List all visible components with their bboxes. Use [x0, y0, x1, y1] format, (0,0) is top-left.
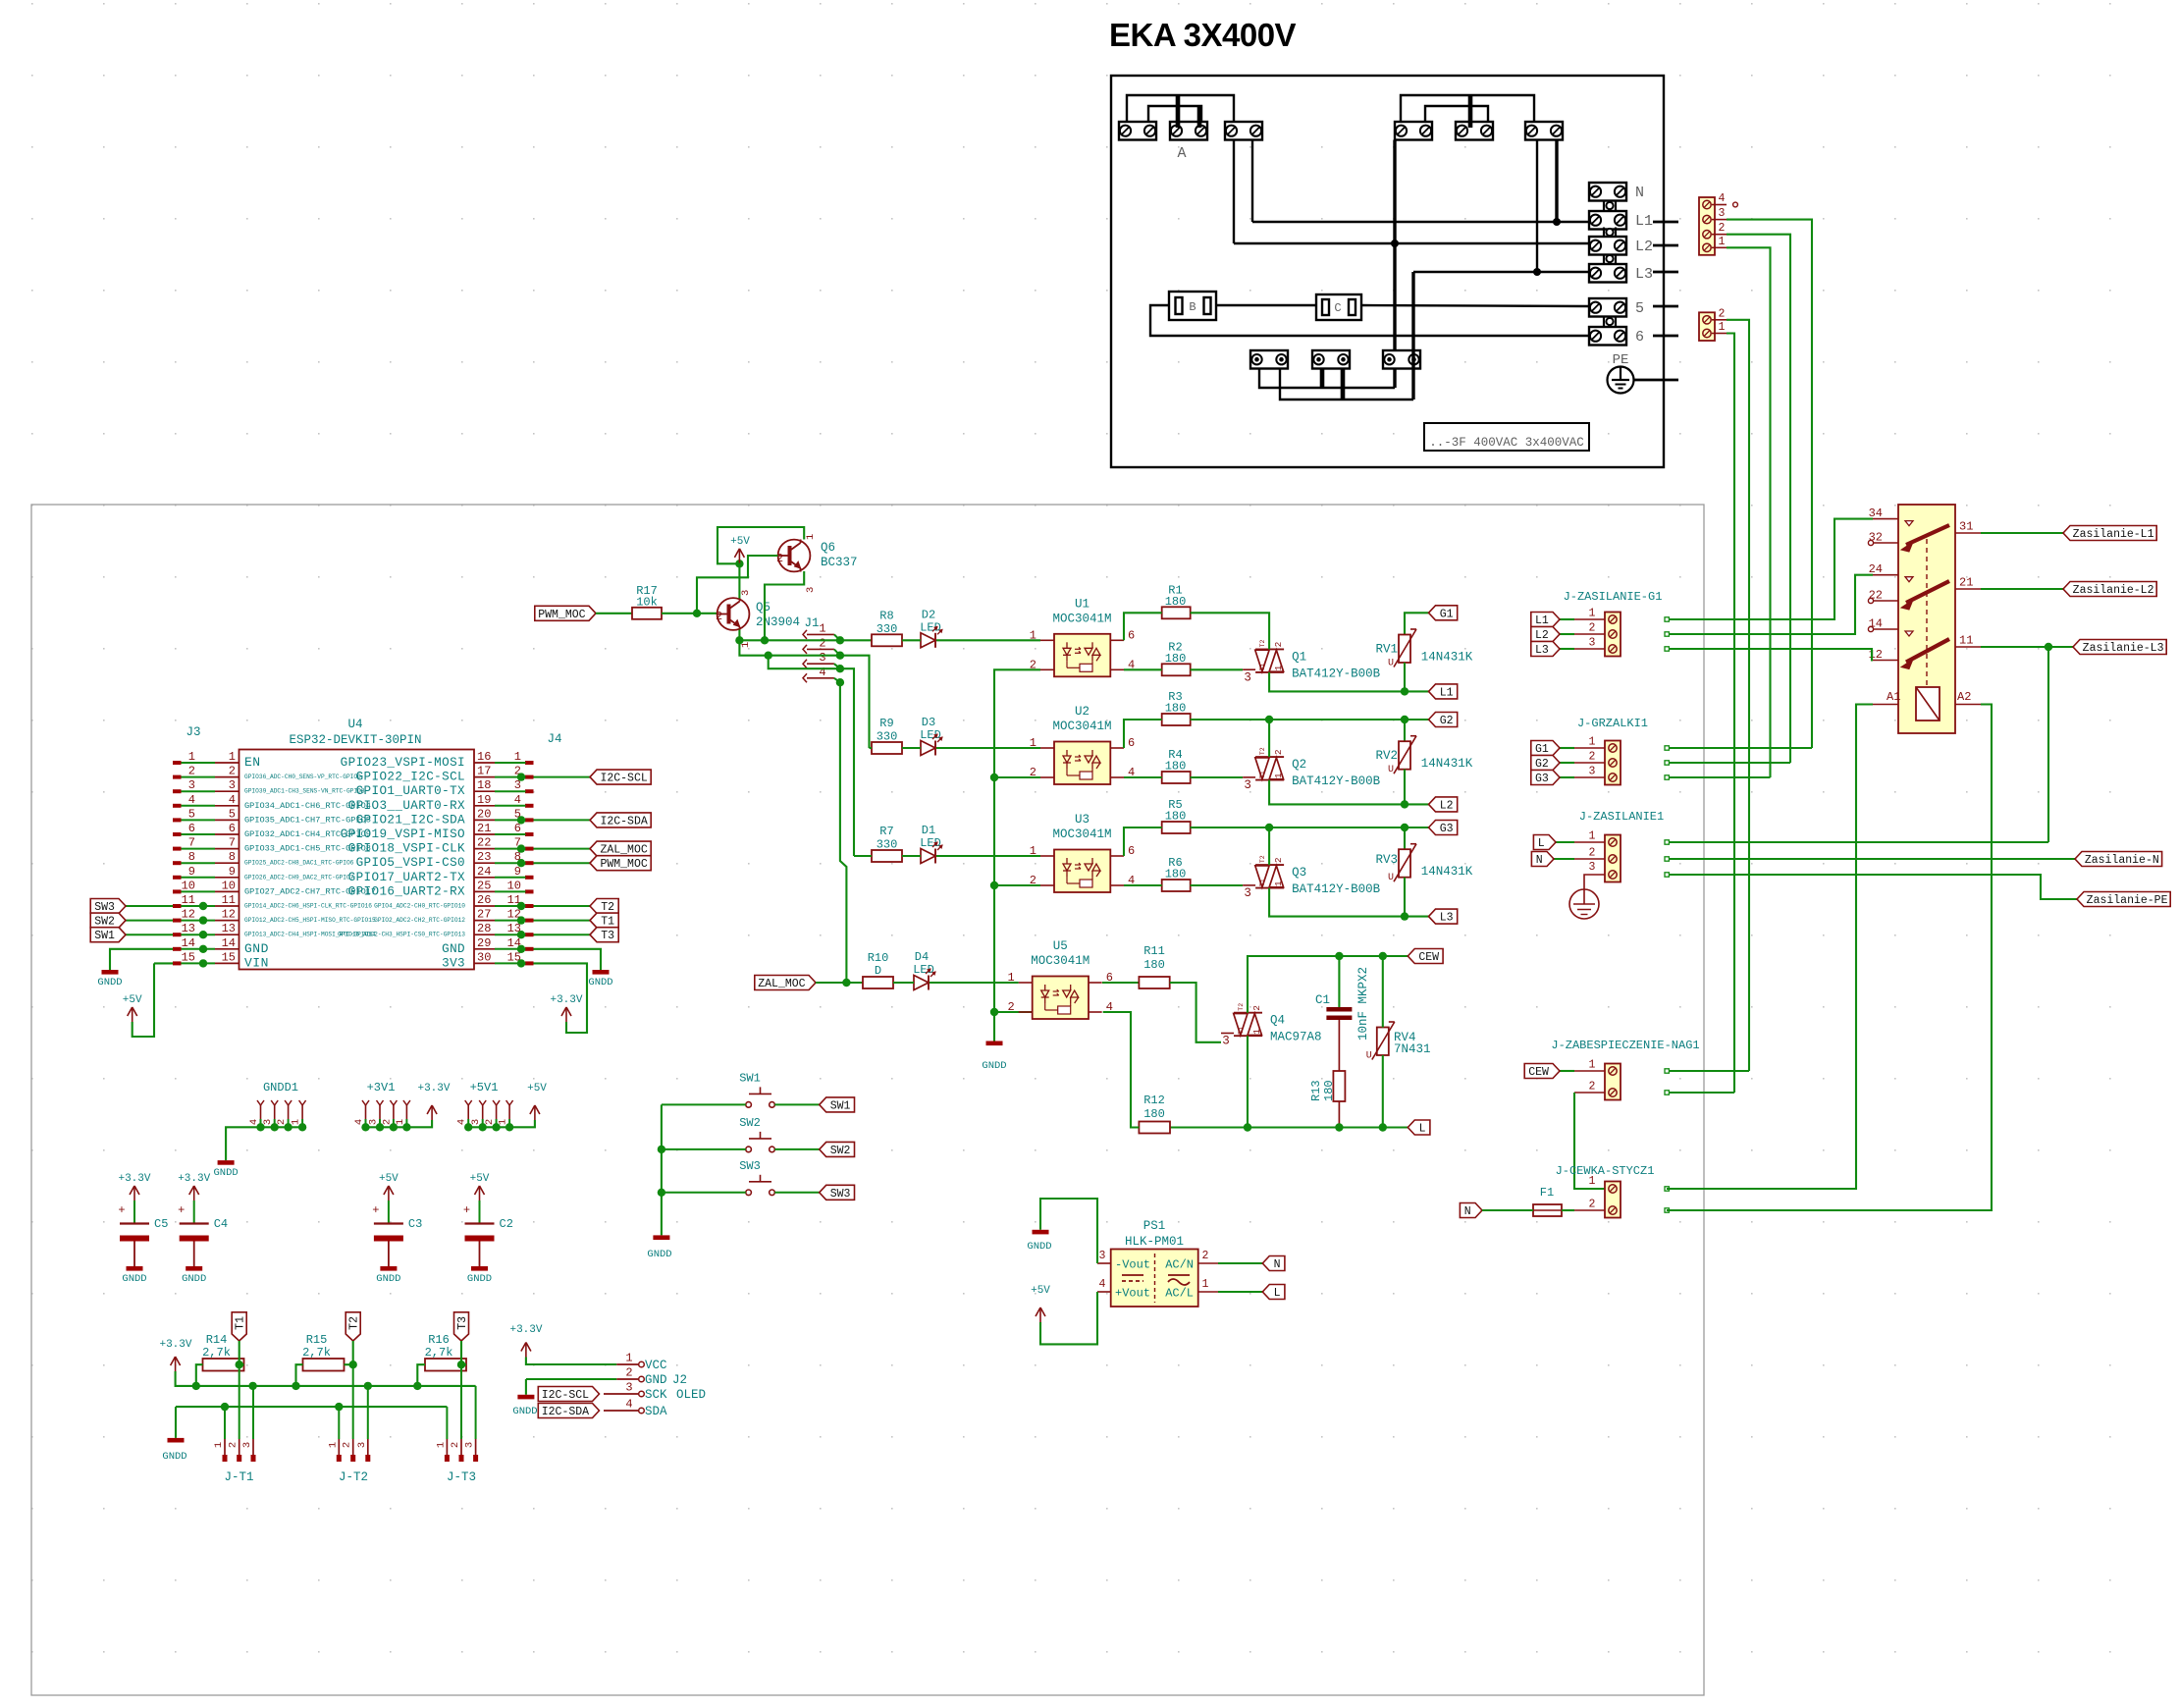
svg-text:3: 3 [1244, 778, 1251, 792]
svg-text:MOC3041M: MOC3041M [1052, 612, 1111, 625]
J3/U4 pin row 7 left [173, 847, 182, 851]
svg-text:1: 1 [1007, 971, 1014, 985]
svg-text:2: 2 [1589, 847, 1596, 860]
svg-text:G3: G3 [1535, 773, 1549, 785]
svg-text:L3: L3 [1440, 912, 1454, 925]
J4/U4 pin row 17 right [525, 775, 534, 779]
svg-text:4: 4 [819, 666, 825, 679]
label SW1 wire [122, 934, 173, 935]
svg-text:17: 17 [477, 765, 491, 778]
svg-text:GNDD: GNDD [512, 1406, 537, 1417]
svg-text:2: 2 [625, 1366, 632, 1380]
junction [390, 1123, 398, 1131]
label T2 [345, 1312, 360, 1341]
wire PWM to R17 [596, 613, 632, 614]
connector FEED2 [1699, 312, 1715, 341]
svg-text:30: 30 [477, 950, 491, 964]
wire G1 to RV1 [1405, 613, 1429, 634]
svg-text:Q5: Q5 [756, 601, 771, 614]
svg-text:GNDD: GNDD [376, 1273, 400, 1285]
terminal chain links [1603, 201, 1605, 211]
junction [479, 1123, 487, 1131]
junction [1335, 952, 1343, 960]
label PWM_MOC [590, 856, 651, 871]
svg-text:26: 26 [477, 893, 491, 907]
J4/U4 pin row 21 right [525, 832, 534, 836]
svg-text:ZAL_MOC: ZAL_MOC [600, 844, 647, 857]
svg-text:6: 6 [229, 822, 236, 835]
svg-text:6: 6 [1128, 628, 1135, 642]
label SW2 [90, 913, 126, 928]
svg-text:Q1: Q1 [1292, 650, 1306, 664]
svg-text:G1: G1 [1535, 743, 1549, 756]
GNDD chain for opto pin2 [994, 669, 1040, 1041]
power +3.3V [193, 1186, 195, 1201]
connector J-CEWKA-STYCZ1 [1605, 1182, 1621, 1218]
J3/U4 pin row 5 left [173, 818, 182, 822]
junction [1335, 1123, 1343, 1131]
junction [842, 979, 850, 987]
svg-text:3: 3 [1589, 766, 1596, 778]
junction [464, 1123, 472, 1131]
junction [836, 665, 844, 672]
junction [765, 652, 772, 660]
svg-text:+: + [463, 1203, 470, 1217]
junction [658, 1189, 665, 1197]
junction [1265, 824, 1273, 831]
svg-text:10: 10 [222, 879, 236, 892]
junction [364, 1382, 372, 1390]
svg-text:ESP32-DEVKIT-30PIN: ESP32-DEVKIT-30PIN [289, 733, 421, 747]
junction [199, 916, 207, 924]
svg-text:2: 2 [716, 611, 722, 623]
J3/U4 pin row 8 left [173, 861, 182, 865]
earth symbol [1569, 889, 1599, 919]
triac Q4 MAC97A8 [1234, 1012, 1262, 1014]
junction [492, 1123, 500, 1131]
wire triac top [1191, 719, 1429, 721]
svg-text:GNDD1: GNDD1 [263, 1081, 298, 1094]
label L1 [1429, 684, 1458, 699]
svg-text:T2: T2 [348, 1316, 361, 1330]
junction [271, 1123, 279, 1131]
svg-text:GPIO36_ADC-CH0_SENS-VP_RTC-GPI: GPIO36_ADC-CH0_SENS-VP_RTC-GPIO0 [244, 774, 361, 780]
J4/U4 pin row 23 right [525, 861, 534, 865]
wire +3.3V to J2.1 [526, 1358, 616, 1365]
J4/U4 pin row 20 right [525, 818, 534, 822]
svg-text:+3.3V: +3.3V [550, 994, 582, 1006]
wire G1.3 to 12 [1669, 649, 1873, 661]
junction [361, 1123, 369, 1131]
terminal block E3 [1383, 350, 1420, 369]
svg-text:+3V1: +3V1 [367, 1081, 396, 1094]
label T3 [590, 928, 618, 942]
J1 pin 3 [803, 660, 807, 668]
svg-text:3: 3 [464, 1442, 476, 1448]
wire R13 to L row [1338, 1101, 1340, 1128]
svg-text:C3: C3 [408, 1217, 422, 1231]
svg-text:CEW: CEW [1528, 1066, 1549, 1079]
svg-text:1: 1 [435, 1442, 447, 1448]
run B-C [1216, 304, 1316, 306]
svg-text:12: 12 [222, 908, 236, 922]
svg-text:GPIO23_VSPI-MOSI: GPIO23_VSPI-MOSI [341, 756, 465, 770]
label L2 [1429, 797, 1458, 812]
EKA diagram frame [1111, 76, 1664, 467]
junction [1401, 687, 1408, 695]
svg-text:..-3F 400VAC 3x400VAC: ..-3F 400VAC 3x400VAC [1429, 436, 1584, 450]
junction [517, 916, 525, 924]
J3/U4 pin row 6 left [173, 832, 182, 836]
svg-text:1: 1 [229, 750, 236, 764]
wire Q6 base [697, 556, 778, 614]
junction [735, 636, 743, 644]
svg-text:8: 8 [188, 850, 195, 864]
contactor dashed link [1926, 539, 1928, 687]
svg-text:5: 5 [229, 807, 236, 821]
svg-text:U4: U4 [347, 718, 362, 731]
label PWM_MOC [535, 606, 596, 620]
svg-text:R11: R11 [1143, 944, 1165, 958]
wire Q6 emitter down [765, 571, 804, 640]
svg-text:U: U [1388, 765, 1394, 775]
wire PS1 pin1 to L [1218, 1291, 1262, 1293]
svg-text:GNDD: GNDD [1027, 1241, 1051, 1253]
connector FEED4 [1699, 197, 1715, 255]
connector J-T3 [446, 1439, 448, 1457]
label L2 [1531, 627, 1560, 642]
svg-text:J-T2: J-T2 [339, 1470, 368, 1484]
svg-text:7: 7 [188, 836, 195, 850]
svg-text:MOC3041M: MOC3041M [1052, 720, 1111, 733]
svg-text:5: 5 [188, 807, 195, 821]
label SW3 wire [662, 1192, 746, 1194]
svg-text:J1: J1 [804, 616, 819, 630]
svg-text:GPIO35_ADC1-CH7_RTC-GPIO5: GPIO35_ADC1-CH7_RTC-GPIO5 [244, 815, 371, 825]
J3/U4 pin row 3 left [173, 789, 182, 793]
svg-text:2,7k: 2,7k [202, 1346, 231, 1360]
label SW1 wire [662, 1103, 746, 1105]
svg-text:R14: R14 [206, 1333, 228, 1347]
contactor pole 11 [1873, 628, 1898, 630]
ground GNDD [593, 970, 610, 975]
svg-text:C1: C1 [1315, 993, 1330, 1007]
junction [221, 1403, 229, 1411]
wire PS1 pin2 to N [1218, 1262, 1262, 1264]
junction [517, 859, 525, 867]
wires R9/D3 row [902, 747, 921, 749]
svg-text:Q2: Q2 [1292, 758, 1306, 772]
junction [517, 844, 525, 852]
junction [517, 945, 525, 953]
svg-text:G3: G3 [1440, 823, 1454, 835]
wire U5 pin6 to R11 [1102, 982, 1139, 984]
svg-text:R7: R7 [879, 825, 893, 838]
svg-text:7N431: 7N431 [1394, 1042, 1431, 1056]
svg-text:1: 1 [1589, 1059, 1596, 1072]
svg-text:C4: C4 [214, 1217, 228, 1231]
svg-text:GPIO22_I2C-SCL: GPIO22_I2C-SCL [356, 771, 465, 784]
connector J-T1 [224, 1439, 226, 1457]
svg-text:GPIO26_ADC2-CH9_DAC2_RTC-GPIO7: GPIO26_ADC2-CH9_DAC2_RTC-GPIO7 [244, 874, 354, 881]
svg-text:8: 8 [229, 850, 236, 864]
junction [2045, 643, 2052, 651]
svg-text:2: 2 [1273, 641, 1284, 647]
svg-text:GPIO17_UART2-TX: GPIO17_UART2-TX [348, 871, 465, 884]
wire ZAL feed [840, 682, 847, 983]
svg-text:2: 2 [228, 1442, 239, 1448]
svg-text:14N431K: 14N431K [1421, 757, 1473, 771]
J4/U4 pin row 30 right [525, 961, 534, 965]
svg-text:GPIO4_ADC2-CH0_RTC-GPIO10: GPIO4_ADC2-CH0_RTC-GPIO10 [374, 903, 465, 910]
wire GNDD to J2.2 [526, 1378, 616, 1380]
junction [517, 959, 525, 967]
svg-text:12: 12 [182, 908, 195, 922]
heater bottom wiring [1259, 369, 1395, 389]
svg-text:1: 1 [1273, 773, 1284, 778]
label T3 wire [534, 934, 591, 935]
connector J-T2 [338, 1439, 340, 1457]
label T1 wire [534, 920, 591, 922]
transistor Q5 2N3904 [717, 598, 750, 630]
junction [284, 1123, 292, 1131]
svg-text:D4: D4 [915, 950, 929, 964]
svg-text:11: 11 [222, 893, 236, 907]
svg-text:GNDD: GNDD [122, 1273, 146, 1285]
wire Q4 bottom [1247, 1036, 1249, 1127]
wire RV4 [1382, 956, 1384, 1028]
svg-text:L2: L2 [1440, 799, 1454, 812]
feed wires down [1727, 220, 1812, 748]
EKA junction dots [1553, 218, 1561, 226]
svg-text:3: 3 [1589, 861, 1596, 874]
svg-text:GND: GND [645, 1373, 667, 1387]
svg-text:C2: C2 [500, 1217, 513, 1231]
svg-text:21: 21 [1959, 576, 1973, 590]
wire N to F1 [1482, 1209, 1533, 1211]
wires R7/D1 row [902, 855, 921, 857]
svg-text:J-T3: J-T3 [447, 1470, 476, 1484]
junction [298, 1123, 306, 1131]
label SW1 [820, 1097, 855, 1112]
svg-text:F1: F1 [1540, 1186, 1554, 1200]
label N [1262, 1256, 1285, 1271]
svg-text:2,7k: 2,7k [302, 1346, 331, 1360]
contactor pole 31 [1873, 518, 1898, 520]
svg-text:2: 2 [450, 1442, 461, 1448]
svg-text:PE: PE [1613, 352, 1629, 368]
svg-text:1: 1 [1273, 665, 1284, 670]
svg-text:J-T1: J-T1 [224, 1470, 253, 1484]
svg-text:L3: L3 [1635, 266, 1653, 283]
junction [517, 816, 525, 824]
wire 31 to Zasilanie-L1 [1981, 532, 2063, 534]
terminal block A3 [1225, 122, 1262, 140]
wire RV bottom [1404, 663, 1406, 691]
svg-text:29: 29 [477, 936, 491, 950]
label Zasilanie-L3 [2073, 640, 2166, 655]
svg-text:GND: GND [244, 941, 269, 956]
junction [836, 636, 844, 644]
ground GNDD [1033, 1230, 1049, 1235]
svg-text:4: 4 [188, 793, 195, 807]
svg-text:14N431K: 14N431K [1421, 650, 1473, 664]
svg-text:G2: G2 [1535, 758, 1549, 771]
svg-text:Q4: Q4 [1270, 1014, 1285, 1028]
svg-text:2: 2 [1719, 307, 1726, 320]
svg-text:Q3: Q3 [1292, 866, 1306, 880]
wire ZAL to R10 [816, 982, 863, 984]
power +5V [1039, 1308, 1041, 1322]
svg-text:23: 23 [477, 850, 491, 864]
svg-text:A1: A1 [1887, 690, 1900, 704]
svg-text:T1: T1 [1259, 879, 1266, 886]
svg-text:180: 180 [1143, 1107, 1165, 1121]
svg-text:+5V: +5V [123, 994, 142, 1006]
svg-text:6: 6 [1635, 329, 1644, 346]
svg-text:14: 14 [182, 936, 195, 950]
label SW2 [820, 1142, 855, 1156]
triac Q3 BAT412Y-B00B [1255, 864, 1284, 866]
svg-text:GNDD: GNDD [213, 1167, 238, 1179]
svg-text:2: 2 [342, 1442, 353, 1448]
transistor Q6 BC337 [778, 540, 811, 572]
wire 21 to Zasilanie-L2 [1981, 588, 2063, 590]
heater D wiring [1401, 95, 1534, 122]
svg-text:2: 2 [188, 765, 195, 778]
connector J-ZASILANIE1 [1605, 835, 1621, 882]
wire RV bottom [1404, 878, 1406, 917]
svg-text:MOC3041M: MOC3041M [1052, 827, 1111, 841]
J4/U4 pin row 19 right [525, 804, 534, 808]
svg-text:R12: R12 [1143, 1094, 1165, 1107]
svg-text:T2: T2 [1259, 639, 1266, 647]
wire row2 to R9 [870, 747, 873, 749]
svg-text:GPIO21_I2C-SDA: GPIO21_I2C-SDA [356, 813, 465, 827]
junction [836, 652, 844, 660]
svg-text:VCC: VCC [645, 1359, 667, 1372]
svg-text:GNDD: GNDD [467, 1273, 492, 1285]
svg-text:24: 24 [477, 865, 491, 879]
svg-text:2: 2 [1007, 1000, 1014, 1014]
triac Q1 BAT412Y-B00B [1255, 648, 1284, 650]
svg-text:+5V: +5V [470, 1173, 490, 1185]
label SW2 wire [122, 920, 173, 922]
svg-text:9: 9 [229, 865, 236, 879]
svg-text:15: 15 [182, 950, 195, 964]
terminal block 6 [1589, 327, 1626, 346]
wire L3 feed down to J-ZASILANIE1.1 [2047, 647, 2049, 842]
heater D drop wires [1393, 140, 1396, 389]
svg-text:1: 1 [625, 1352, 632, 1365]
J4/U4 pin row 22 right [525, 847, 534, 851]
run 5 [1361, 305, 1589, 306]
label G2 [1531, 756, 1560, 771]
svg-text:1: 1 [1589, 1175, 1596, 1188]
run L1 [1252, 221, 1589, 223]
label I2C-SDA [590, 813, 651, 827]
svg-text:1: 1 [1589, 736, 1596, 749]
svg-text:PWM_MOC: PWM_MOC [600, 858, 647, 871]
wires ZASILANIE1 [1669, 841, 2048, 843]
svg-text:6: 6 [188, 822, 195, 835]
wire driver row3 [769, 656, 854, 856]
junction [1401, 824, 1408, 831]
label SW3 [820, 1185, 855, 1200]
wires GRZALKI stubs [1669, 747, 1812, 749]
wire R6 to gate [1191, 884, 1243, 886]
terminal block D3 [1525, 122, 1563, 140]
J4/U4 pin row 29 right [525, 947, 534, 951]
wire 11 to Zasilanie-L3 [1981, 646, 2073, 648]
svg-text:G1: G1 [1440, 608, 1454, 620]
terminal block L1 [1589, 211, 1626, 230]
power +5V [388, 1186, 390, 1201]
ground GNDD [218, 1160, 235, 1165]
wire PS1 pin3 to GNDD [1040, 1199, 1097, 1263]
svg-text:L1: L1 [1535, 614, 1549, 627]
label SW1 [90, 928, 126, 942]
J3/U4 pin row 4 left [173, 804, 182, 808]
junction [761, 636, 769, 644]
J4/U4 pin row 24 right [525, 876, 534, 880]
svg-text:U3: U3 [1075, 813, 1089, 827]
heater A thick feeds [1176, 95, 1181, 128]
svg-text:2: 2 [229, 765, 236, 778]
ground GNDD [127, 1266, 143, 1271]
label G1 [1531, 741, 1560, 756]
junction [335, 1403, 343, 1411]
svg-text:19: 19 [477, 793, 491, 807]
svg-text:2: 2 [1589, 622, 1596, 635]
svg-text:2N3904: 2N3904 [756, 615, 800, 629]
ground GNDD [186, 1266, 202, 1271]
label SW3 [90, 899, 126, 914]
svg-text:13: 13 [222, 922, 236, 935]
label CEW [1524, 1064, 1560, 1079]
J3/U4 pin row 12 left [173, 919, 182, 923]
svg-text:SW2: SW2 [830, 1145, 851, 1157]
svg-text:A2: A2 [1957, 690, 1971, 704]
contactor coil [1916, 687, 1940, 721]
svg-text:+3.3V: +3.3V [417, 1083, 450, 1094]
svg-text:11: 11 [1959, 634, 1973, 648]
resistor R17 [632, 608, 662, 619]
label T2 wire [534, 905, 591, 907]
svg-text:1: 1 [1719, 236, 1726, 248]
svg-text:3: 3 [1099, 1250, 1106, 1262]
svg-text:SDA: SDA [645, 1405, 667, 1418]
svg-text:GPIO12_ADC2-CH5_HSPI-MISO_RTC-: GPIO12_ADC2-CH5_HSPI-MISO_RTC-GPIO15 [244, 917, 376, 924]
svg-text:A: A [1177, 145, 1186, 162]
svg-text:I2C-SDA: I2C-SDA [542, 1406, 589, 1418]
svg-text:27: 27 [477, 908, 491, 922]
svg-text:N: N [1536, 854, 1543, 867]
label Zasilanie-L2 [2063, 582, 2156, 597]
label L [1533, 835, 1556, 850]
svg-text:16: 16 [477, 750, 491, 764]
svg-text:-Vout: -Vout [1115, 1258, 1150, 1272]
svg-text:PS1: PS1 [1143, 1219, 1166, 1233]
svg-text:3: 3 [241, 1442, 253, 1448]
svg-text:BC337: BC337 [821, 556, 858, 569]
junction [1379, 952, 1387, 960]
svg-text:10: 10 [507, 879, 521, 892]
wire NAG pin2 to CEWKA pin1 [1574, 1093, 1605, 1189]
svg-text:13: 13 [182, 922, 195, 935]
power +5V [132, 1007, 133, 1022]
wires R15 [296, 1364, 303, 1386]
